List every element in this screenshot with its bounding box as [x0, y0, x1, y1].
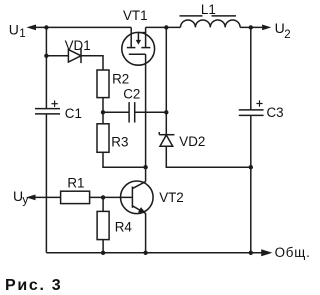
wire bottom rail [46, 252, 261, 254]
resistor R1 [61, 191, 90, 203]
diode VD1 [68, 49, 81, 64]
node Obsh arrow [261, 249, 272, 256]
node U1 arrow [26, 25, 36, 31]
node Uy arrow [26, 195, 36, 201]
label C1 [65, 106, 82, 121]
node A junction dot U1 [44, 25, 48, 29]
svg-text:R2: R2 [112, 72, 129, 87]
label C1 plus sign [51, 101, 57, 107]
node D junction dot on VD2 column [164, 110, 168, 114]
node F junction dot top VD2 [164, 25, 168, 29]
svg-text:у: у [22, 192, 28, 206]
resistor R3 [97, 124, 109, 153]
capacitor C3 [239, 110, 264, 116]
svg-text:1: 1 [19, 28, 25, 40]
label U1 [9, 21, 26, 40]
label Uy [13, 188, 28, 206]
label Obsh [275, 245, 311, 260]
svg-text:R1: R1 [67, 176, 84, 191]
capacitor C2 [129, 102, 135, 122]
svg-text:2: 2 [284, 29, 290, 41]
node I junction dot R1/R4 [101, 195, 105, 199]
wire VT2 collector lead [145, 167, 147, 181]
resistor R2 [97, 70, 109, 98]
label C3 [267, 105, 284, 120]
label VD1 [65, 38, 91, 53]
svg-text:VT2: VT2 [159, 190, 184, 205]
svg-text:Общ.: Общ. [275, 245, 311, 260]
wire VT2 emitter lead [145, 213, 147, 253]
svg-text:R4: R4 [115, 220, 133, 235]
wire top right [240, 26, 263, 28]
resistor R4 [97, 211, 109, 239]
svg-text:C2: C2 [123, 87, 140, 102]
label C2 [123, 87, 140, 102]
label figure caption [5, 277, 62, 294]
svg-text:U: U [275, 20, 285, 36]
label R1 [67, 176, 84, 191]
wire R2 bottom [102, 98, 104, 113]
capacitor C1 [35, 109, 60, 114]
node K junction dot emitter bottom [143, 251, 147, 255]
svg-text:Рис. 3: Рис. 3 [5, 277, 62, 294]
label R4 [115, 220, 133, 235]
wire R1 to VT2 base [90, 196, 133, 198]
wire R3 bottom to node E [103, 152, 146, 167]
wire VD2 anode down and right [166, 146, 251, 167]
label R2 [112, 72, 129, 87]
node J junction dot R4 bottom [101, 251, 105, 255]
svg-text:C1: C1 [65, 106, 82, 121]
label L1 [201, 2, 216, 17]
wire Uy to R1 [35, 196, 61, 198]
diode VD2 zener [159, 132, 174, 146]
svg-text:C3: C3 [267, 105, 284, 120]
wire right rail upper [250, 27, 252, 110]
svg-text:VD1: VD1 [65, 38, 91, 53]
wire top left [35, 26, 131, 28]
label R3 [111, 134, 128, 149]
wire R4 top [102, 197, 104, 211]
node B junction dot VD1 tap [44, 54, 48, 58]
wire VD2 column upper [165, 27, 167, 134]
wire VT1 gate lead down [145, 54, 147, 167]
node L junction dot right rail bottom [249, 251, 253, 255]
wire VD1 anode [46, 55, 68, 57]
wire top mid segment [146, 26, 181, 28]
label VD2 [179, 134, 205, 149]
wire node C to C2 [103, 111, 129, 113]
label C3 plus sign [256, 100, 262, 106]
wire C2 to node D [135, 111, 167, 113]
transistor VT1 [122, 27, 155, 65]
svg-text:U: U [9, 21, 19, 37]
wire R4 bottom [102, 240, 104, 253]
svg-text:R3: R3 [111, 134, 128, 149]
inductor L1 [180, 16, 241, 28]
label VT2 [159, 190, 184, 205]
wire right rail lower [250, 115, 252, 252]
node G junction dot U2 [249, 25, 253, 29]
node E junction dot gate/collector [143, 165, 147, 169]
label VT1 [123, 8, 148, 23]
svg-text:VD2: VD2 [179, 134, 205, 149]
node C junction dot R2/R3/C2 [101, 110, 105, 114]
svg-text:L1: L1 [201, 2, 216, 17]
node H junction dot right rail mid [249, 165, 253, 169]
wire VD1 cathode to R2 [81, 56, 103, 70]
wire left rail upper [45, 27, 47, 108]
svg-text:VT1: VT1 [123, 8, 148, 23]
label U2 [275, 20, 291, 41]
wire R3 top [102, 112, 104, 124]
node U2 arrow [262, 25, 271, 31]
wire left rail lower [45, 114, 47, 253]
transistor VT2 [121, 181, 154, 214]
